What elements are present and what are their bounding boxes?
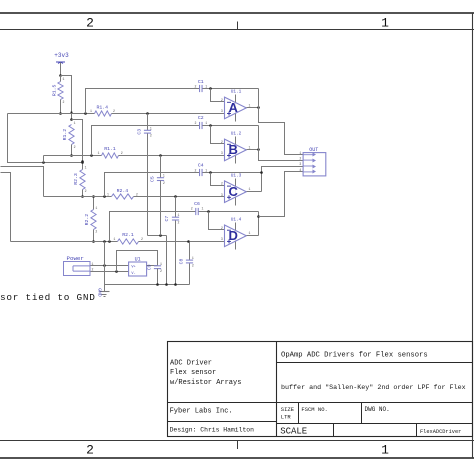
wire bus3 left segment [44,196,112,198]
svg-text:D: D [229,228,238,243]
junction B output [257,148,260,151]
ground [104,285,106,292]
title block outline [168,342,473,437]
regulator U1 [129,262,147,276]
svg-text:w/Resistor Arrays: w/Resistor Arrays [170,379,241,387]
resistor R2.2 [93,197,95,210]
resistor R2.4 [112,194,134,199]
sheet border top band [0,12,474,14]
wire C1 riser [86,89,200,114]
svg-text:1: 1 [177,213,179,217]
svg-text:1: 1 [113,237,115,241]
title block main divider [276,342,278,437]
svg-text:V+: V+ [131,266,135,270]
svg-text:2: 2 [121,151,123,155]
wire C inverting input [211,173,225,186]
wire C4 riser [105,173,200,197]
wire C7 lower lead [175,221,177,285]
svg-text:LTR: LTR [281,414,292,421]
wire U1 output [147,265,158,267]
svg-text:3: 3 [221,237,223,241]
svg-text:FlexADCDriver: FlexADCDriver [420,429,461,435]
junction Power pin2 loop [115,270,118,273]
svg-text:+3v3: +3v3 [54,52,69,59]
wire bus1 left segment [8,113,95,115]
svg-text:1: 1 [192,256,194,260]
junction Power pin1 GND tie [103,264,106,267]
svg-text:1: 1 [160,262,162,266]
resistor R2.3 [82,190,84,197]
junction C1 output node [209,87,212,90]
junction R1.2 bottom on bus2 [70,154,73,157]
svg-text:U1.3: U1.3 [231,174,242,179]
wire C feedback and route to pin3 [262,167,304,192]
svg-text:1: 1 [381,15,389,30]
svg-text:1: 1 [150,126,152,130]
svg-text:1: 1 [249,187,251,191]
wire tie to ground rail [166,236,168,285]
title block left row lines [168,402,277,404]
svg-text:3: 3 [221,151,223,155]
svg-text:sor tied to GND: sor tied to GND [0,292,96,303]
wire bus2 left segment [44,155,102,157]
wire D inverting input [209,212,225,230]
wire C8 upper lead [189,242,191,261]
junction R2.3 feed [81,161,84,164]
svg-text:U1: U1 [135,257,141,263]
svg-text:1: 1 [381,443,389,458]
junction C2 riser on bus2 [90,154,93,157]
svg-text:C8: C8 [178,259,184,265]
junction R1.5 bottom on bus1 [59,112,62,115]
svg-text:3: 3 [221,193,223,197]
connector Power pin 2 [73,270,90,272]
svg-text:Power: Power [66,255,83,262]
capacitor C3 [144,129,151,131]
junction C feedback [260,171,263,174]
wire C2 to junction [203,125,259,127]
wire C2 riser [92,126,200,156]
wire A inverting input [211,89,225,102]
resistor R1.2 [71,145,73,156]
junction staircase R2.3 [81,160,84,163]
junction R2.2 bottom on bus4 [92,240,95,243]
wire Power pin2 to U1 [91,271,129,273]
svg-text:2: 2 [86,443,94,458]
title block scale row lines [333,424,335,437]
svg-text:U1.4: U1.4 [231,218,242,223]
svg-text:1: 1 [107,193,109,197]
svg-text:3: 3 [221,109,223,113]
svg-text:3: 3 [299,162,301,166]
junction C1 riser on bus1 [84,112,87,115]
wire C5 upper lead [160,156,162,178]
svg-text:1: 1 [63,77,65,81]
capacitor C4 [199,169,201,176]
svg-text:2: 2 [163,181,165,185]
svg-text:2: 2 [221,226,223,230]
junction R2.3 bottom on bus3 [81,195,84,198]
svg-text:1: 1 [205,84,207,88]
wire B inverting input [211,126,225,144]
junction C7 on bus3 [174,195,177,198]
capacitor C8 [186,259,193,261]
svg-text:FSCM NO.: FSCM NO. [301,406,327,413]
svg-text:4: 4 [299,168,301,172]
wire A feedback and route to pin1 [259,89,304,155]
wire A output [247,107,259,109]
wire bus3 right segment to op-amp C + input [134,196,225,198]
svg-text:1: 1 [201,207,203,211]
svg-text:C7: C7 [164,216,170,222]
sheet border bottom band [0,440,474,442]
wire C3 C5 tie [148,235,167,237]
op-amp U1.2 (B) [235,137,237,164]
svg-text:OUT: OUT [309,147,318,153]
wire C5 lower lead [160,181,162,236]
svg-text:C1: C1 [198,79,204,85]
wire C output [247,191,262,193]
svg-text:1: 1 [205,168,207,172]
svg-text:2: 2 [63,100,65,104]
capacitor C6 [195,208,197,215]
svg-text:1: 1 [249,145,251,149]
junction R1.2 top [70,118,73,121]
title block size box lines [298,403,300,424]
svg-text:R1.2: R1.2 [62,129,68,141]
connector Power pin 1 [73,265,90,267]
wire C3 upper lead [147,114,149,131]
sheet border right edge [472,13,474,458]
connector OUT pin 1 [303,154,312,156]
resistor R1.4 [95,111,112,116]
border column tick bottom [237,441,239,450]
svg-text:2: 2 [221,98,223,102]
svg-text:1: 1 [249,103,251,107]
svg-text:1: 1 [205,121,207,125]
svg-text:2: 2 [195,84,197,88]
svg-text:1: 1 [74,121,76,125]
svg-text:2: 2 [92,267,94,271]
wire C1 to junction [203,88,259,90]
capacitor C2 [199,122,201,129]
svg-text:2: 2 [150,134,152,138]
svg-text:2: 2 [113,109,115,113]
junction tie ground [165,283,168,286]
wire +3v3 stub [60,63,62,76]
junction C2 output node [209,124,212,127]
svg-text:DWG NO.: DWG NO. [365,406,390,413]
junction C5 on bus2 [159,154,162,157]
junction C4 output node [209,171,212,174]
connector OUT pin 4 [303,171,312,173]
title block right row lines [277,362,473,364]
svg-text:2: 2 [86,15,94,30]
svg-text:C9: C9 [147,264,153,270]
wire D output [247,235,259,237]
junction C7 ground [174,283,177,286]
svg-text:2: 2 [141,237,143,241]
svg-text:Design: Chris Hamilton: Design: Chris Hamilton [170,427,255,434]
wire C6 to junction [199,211,259,213]
wire C7 upper lead [175,197,177,218]
svg-text:V-: V- [131,272,135,276]
capacitor C7 [172,216,179,218]
svg-text:ADC Driver: ADC Driver [170,359,212,367]
junction 3v3 branch [59,74,62,77]
wire bus4 left segment [11,241,118,243]
svg-text:R1.5: R1.5 [51,85,57,97]
junction C6 riser on bus4 [108,240,111,243]
wire bus1 right segment to op-amp A + input [112,113,225,115]
svg-text:1: 1 [299,151,301,155]
op-amp U1.1 (A) [235,95,237,122]
junction C5 tie [159,234,162,237]
capacitor C1 [199,85,201,92]
op-amp U1.3 (C) [235,179,237,206]
wire 3v3 branch to R1.2 column [61,76,72,120]
junction C9 ground [156,283,159,286]
svg-text:2: 2 [160,269,162,273]
svg-text:2: 2 [195,168,197,172]
svg-text:1: 1 [249,231,251,235]
svg-text:SIZE: SIZE [281,406,295,413]
svg-text:2: 2 [85,189,87,193]
wire GND column from bus4 [104,242,106,285]
wire C8 lower lead [189,264,191,285]
wire sensor feed 3 [1,173,11,242]
svg-text:C5: C5 [149,176,155,182]
svg-text:R2.2: R2.2 [84,214,90,226]
svg-text:1: 1 [95,206,97,210]
svg-text:R2.4: R2.4 [117,188,129,194]
wire D route to pin4 [259,172,304,217]
svg-text:R1.4: R1.4 [97,104,109,110]
svg-text:2: 2 [195,121,197,125]
svg-text:2: 2 [221,182,223,186]
wire C6 riser [110,212,196,242]
svg-text:2: 2 [192,263,194,267]
svg-text:C4: C4 [198,163,204,169]
svg-text:SCALE: SCALE [280,426,307,436]
op-amp U1.4 (D) [235,223,237,250]
svg-text:1: 1 [163,174,165,178]
wire C3 lower lead [147,134,149,236]
capacitor C9 [154,265,161,267]
svg-text:C3: C3 [136,129,142,135]
connector OUT pin 2 [303,159,312,161]
wire Power pin1 to U1 [91,265,129,267]
border column tick top [237,22,239,30]
svg-text:U1.2: U1.2 [231,132,242,137]
svg-text:2: 2 [299,156,301,160]
capacitor C5 [157,177,164,179]
svg-text:C: C [229,184,239,199]
svg-text:Flex sensor: Flex sensor [170,369,216,377]
wire D feedback [258,212,260,236]
wire ground rail [105,284,190,286]
svg-text:U1.1: U1.1 [231,90,242,95]
wire branch to R2.3 top [72,120,83,170]
svg-text:Fyber Labs Inc.: Fyber Labs Inc. [170,408,233,416]
connector OUT [303,153,326,176]
svg-text:R2.1: R2.1 [122,232,134,238]
svg-text:buffer and "Sallen-Key" 2nd or: buffer and "Sallen-Key" 2nd order LPF fo… [281,384,466,392]
wire C9 to ground rail [157,269,159,285]
junction D route [257,215,260,218]
svg-text:2: 2 [95,230,97,234]
wire U1 input loop [117,251,158,272]
wire bus4 right segment to op-amp D + input [139,241,225,243]
connector Power [64,262,91,276]
junction A output [257,106,260,109]
wire sensor feed 2 [1,167,44,197]
svg-text:GND: GND [96,288,102,297]
connector OUT pin 3 [303,165,312,167]
svg-text:OpAmp ADC Drivers for Flex sen: OpAmp ADC Drivers for Flex sensors [281,352,428,360]
svg-text:C6: C6 [194,201,200,207]
wire bus2 right segment to op-amp B + input [119,155,225,157]
svg-text:R1.1: R1.1 [104,146,116,152]
svg-text:A: A [229,100,239,115]
resistor R1.1 [102,153,119,158]
svg-text:C2: C2 [198,115,204,121]
junction bus2 jog [42,161,45,164]
connector Power pin bracket [72,266,74,271]
svg-text:2: 2 [221,140,223,144]
wire C4 to junction [203,172,262,174]
junction C8 on bus4 [187,240,190,243]
wire bus1 left drop [8,114,83,163]
resistor R2.1 [118,239,139,244]
svg-text:2: 2 [136,193,138,197]
svg-text:B: B [229,142,238,157]
wire bus2 jog [43,156,45,163]
svg-text:2: 2 [74,145,76,149]
junction GND column on bus4 [103,240,106,243]
wire B output [247,149,259,151]
junction C3 on bus1 [146,112,149,115]
junction at bus1 crossing [70,111,72,113]
junction C6 output node [207,210,210,213]
svg-text:2: 2 [191,207,193,211]
svg-text:1: 1 [98,151,100,155]
svg-text:1: 1 [90,109,92,113]
wire B feedback and route to pin2 [259,126,304,161]
svg-text:R2.3: R2.3 [73,173,79,185]
junction R2.2 top on bus3 [92,195,95,198]
svg-text:1: 1 [85,165,87,169]
resistor R1.5 [60,76,62,82]
svg-text:2: 2 [177,221,179,225]
junction C4 riser on bus3 [103,195,106,198]
